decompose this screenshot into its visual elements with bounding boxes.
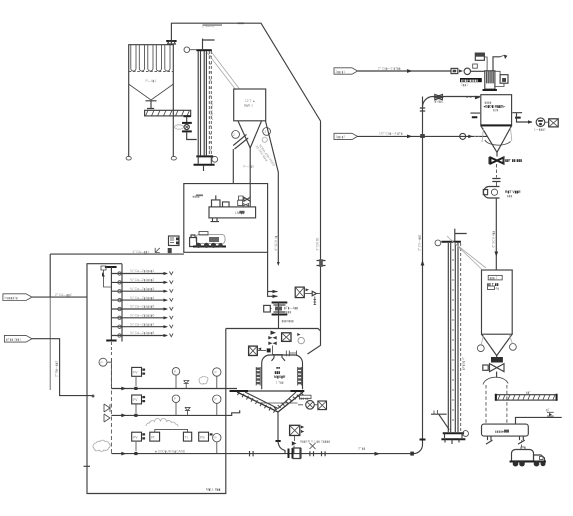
svg-text:TI: TI: [185, 436, 188, 440]
surge bin 1: [234, 89, 266, 121]
junction dot line 2: [134, 414, 137, 417]
svg-text:P: P: [215, 436, 217, 440]
branch line 2: [111, 278, 173, 284]
svg-text:¾″ Ca—2▮1▮a▮5: ¾″ Ca—2▮1▮a▮5: [130, 305, 155, 309]
svg-text:▮T▮▮ 2▮▮1: ▮T▮▮ 2▮▮1: [6, 338, 21, 342]
vent branch with valve: [317, 293, 321, 295]
svg-text:▮▮▮: ▮▮▮: [275, 371, 281, 375]
manifold header: [105, 266, 117, 268]
wire silo discharge drop: [496, 164, 498, 178]
svg-text:P—4▮1: P—4▮1: [146, 79, 157, 83]
svg-text:M▮X▮R: M▮X▮R: [274, 375, 286, 379]
mixer inlet nozzle: [272, 355, 286, 361]
instrument box vent: [295, 287, 304, 298]
arrow down on chute: [277, 262, 280, 266]
tank vent riser: [516, 417, 562, 424]
svg-text:▮▮▮: ▮▮▮: [286, 310, 292, 314]
damper on vertical line: [317, 261, 326, 266]
chute to weigh feeder right with rotated label: [266, 121, 279, 262]
dashed drop to truck: [521, 440, 523, 449]
unloader tank: [482, 424, 529, 436]
silo cone: [481, 126, 512, 153]
instrument box left of enclosure: [169, 236, 180, 246]
feeder legs: [211, 218, 220, 222]
svg-text:2″ N▮—▮▮3: 2″ N▮—▮▮3: [55, 360, 59, 377]
svg-text:▮V▮▮1: ▮V▮▮1: [435, 100, 444, 104]
flange pair on drop: [492, 179, 500, 182]
load cell strip right: [298, 368, 302, 385]
tank legs: [486, 436, 525, 444]
load cell strip left: [256, 368, 260, 385]
riser flanges upper: [420, 108, 425, 111]
hopper outlet tee: [145, 101, 156, 109]
chute elevator head to bin: [207, 53, 240, 91]
baghouse legs: [129, 84, 174, 156]
chute to left (reject): [233, 134, 248, 149]
off page flag nitrogen: [4, 335, 32, 342]
bin vent filter: [485, 71, 495, 89]
elevator 2 legs: [448, 243, 458, 432]
actuator box left of gate: [264, 305, 271, 312]
off page flag compressed air: [3, 294, 32, 301]
svg-text:▮B▮▮4▮▮▮▮▮: ▮B▮▮4▮▮▮▮▮: [461, 78, 478, 82]
aeration control box: [318, 401, 327, 410]
svg-text:3″ DN 80: 3″ DN 80: [316, 237, 320, 250]
svg-text:2▮▮ ▮2: 2▮▮ ▮2: [336, 135, 346, 139]
chute elevator head to day bin: [447, 236, 486, 269]
psv box: [475, 53, 484, 60]
svg-text:▮T: ▮T: [546, 408, 550, 412]
blower conveying line to silo: [249, 453, 414, 455]
branch line 8: [111, 331, 173, 337]
valve actuator box: [243, 204, 249, 207]
flow arrow riser up: [421, 260, 425, 266]
diverter circle left: [232, 131, 240, 139]
instrument box discharge: [290, 425, 300, 435]
fluidize air line 1: [111, 388, 237, 390]
svg-text:B▮▮ER V. L▮▮ C▮▮▮▮: B▮▮ER V. L▮▮ C▮▮▮▮: [300, 440, 330, 444]
check valve on utility line: [155, 248, 160, 253]
aeration blower circle: [306, 401, 315, 410]
flow arrow drop: [494, 252, 498, 257]
svg-text:1 T▮▮: 1 T▮▮: [276, 381, 284, 385]
manifold inlet valve: [101, 266, 111, 287]
svg-text:¾″ Ca—2▮1▮a▮8: ¾″ Ca—2▮1▮a▮8: [130, 331, 155, 335]
foot left: [126, 156, 131, 160]
bubble 2b: [213, 395, 221, 403]
svg-text:12 T ▲: 12 T ▲: [245, 99, 255, 103]
bucket elevator 1 head: [196, 49, 212, 51]
slide gate under day bin: [491, 357, 503, 363]
feeder inlet nozzles: [212, 195, 230, 207]
branch line 5: [111, 305, 173, 311]
drain valve line 2: [185, 407, 190, 415]
wire compressed air line: [32, 296, 87, 298]
revision cloud left: [93, 440, 110, 451]
filter bags: [131, 45, 136, 71]
left instrument box at mixer: [249, 346, 258, 355]
junction dot mixer inlet: [267, 348, 271, 352]
instrument box 3c: [183, 432, 191, 441]
rotary airlock below conveyor: [186, 116, 188, 122]
bubble right of inlet box: [298, 337, 304, 343]
utility line above big box: [50, 253, 184, 255]
mixer discharge stem: [277, 412, 279, 441]
svg-text:L—▮▮▮1: L—▮▮▮1: [534, 128, 546, 132]
rotary valve under day bin: [490, 364, 505, 372]
arrow: [459, 70, 463, 73]
svg-text:■ SOD▮UM B▮CARB: ■ SOD▮UM B▮CARB: [155, 449, 185, 453]
silo outlet line right: [517, 113, 533, 122]
svg-text:▮▮T ▮▮ ▮▮▮: ▮▮T ▮▮ ▮▮▮: [505, 159, 522, 163]
foot right: [171, 156, 176, 160]
boot feed chute: [431, 414, 449, 430]
svg-text:2″ CA—▮▮1: 2″ CA—▮▮1: [133, 250, 150, 254]
elevator 1 boot: [196, 155, 213, 157]
svg-text:P: P: [101, 361, 103, 365]
manifold drop to air lines: [110, 342, 112, 356]
weigh feeder hopper tank: [209, 207, 256, 218]
wire fluidize air line: [358, 135, 488, 137]
mill building boundary box: [87, 329, 226, 494]
bubble 2a: [172, 395, 180, 403]
svg-text:2″ CA—▮▮2: 2″ CA—▮▮2: [55, 293, 72, 297]
spec break x: [310, 443, 316, 449]
svg-text:2″ Ca▮—2 ▮T▮▮: 2″ Ca▮—2 ▮T▮▮: [378, 66, 401, 70]
svg-text:▮▮▮▮■: ▮▮▮▮■: [495, 430, 504, 434]
junction with fluidize line: [420, 134, 425, 138]
instrument bubble at elevator head: [184, 47, 190, 53]
elevator 2 boot: [443, 432, 464, 434]
svg-text:3″ ▮▮: 3″ ▮▮: [358, 447, 366, 451]
cone hatch left: [238, 392, 276, 413]
maintenance valve cluster on left header: [104, 404, 110, 422]
svg-text:2▮▮1: 2▮▮1: [461, 83, 468, 87]
svg-text:PI: PI: [151, 436, 154, 440]
blower conveying line inside building: [111, 453, 248, 455]
control box right: [549, 119, 559, 127]
svg-text:■■: ■■: [276, 366, 280, 370]
screw conveyor under baghouse: [145, 110, 191, 116]
rotary feeder: [483, 187, 499, 199]
bucket elevator 2 head: [441, 241, 461, 243]
bubble 1b: [213, 368, 221, 376]
instrument box 3a: [135, 442, 137, 451]
bin hopper V: [238, 121, 262, 148]
branch line 7: [111, 322, 173, 328]
flag on line 2: [121, 414, 126, 418]
svg-text:▮p▮: ▮p▮: [493, 108, 499, 112]
wire chute drop to mill feeder: [232, 149, 234, 184]
branch line 4: [111, 296, 173, 302]
svg-text:M▮LL B▮▮: M▮LL B▮▮: [206, 488, 221, 492]
check valve circle: [464, 68, 470, 74]
off page flag fluidize air: [334, 133, 358, 139]
svg-text:PS: PS: [200, 436, 204, 440]
instrument box line 1: [135, 377, 137, 386]
screw conveyor 2: [496, 395, 556, 400]
pressure regulator bubble: [99, 358, 107, 366]
fluidize air line 2: [111, 410, 239, 415]
svg-text:▮▮▮a▮▮▮: ▮▮▮a▮▮▮: [282, 319, 295, 323]
bubble 1a: [172, 368, 180, 376]
vibrator circle: [536, 118, 545, 127]
wire drop to elevator boot: [187, 132, 197, 140]
solenoid box on line: [451, 68, 458, 73]
cone hatch right: [274, 393, 304, 410]
valve on bin drop: [244, 197, 250, 201]
small instrument square above line: [473, 64, 478, 68]
bubble at boot 2: [463, 431, 469, 437]
svg-text:P: P: [174, 397, 176, 401]
off page flag dilute air: [334, 68, 358, 74]
svg-text:¾″ Ca—2▮1▮a▮3: ¾″ Ca—2▮1▮a▮3: [130, 287, 155, 291]
flange pair b: [310, 451, 325, 456]
wire mixer feed drop: [308, 330, 321, 354]
elevator 1 legs: [198, 51, 206, 155]
svg-text:▮▮▮ 2: ▮▮▮ 2: [490, 276, 498, 280]
svg-text:2: 2: [233, 133, 235, 137]
svg-text:6″ SCH 4▮▮: 6″ SCH 4▮▮: [491, 231, 495, 248]
screw feeder discharge machine (truck-like mill): [190, 232, 226, 248]
diverter circle right: [263, 127, 271, 135]
svg-text:P: P: [215, 370, 217, 374]
svg-text:¾″ Ca—2▮1▮a▮4: ¾″ Ca—2▮1▮a▮4: [130, 296, 155, 300]
branch line 1: [111, 269, 173, 275]
day bin: [482, 270, 513, 334]
svg-text:2▮▮ ▮1: 2▮▮ ▮1: [336, 70, 346, 74]
inlet isolation valve: [435, 94, 443, 99]
branch line 3: [111, 287, 173, 293]
dp unit right of filter: [500, 75, 508, 84]
feed valves above mixer: [271, 331, 277, 335]
check valve circle fluidize: [460, 133, 466, 139]
wire vent duct top header: [171, 23, 320, 330]
wire drop to day bin: [495, 198, 497, 270]
filter mount flange: [483, 89, 497, 91]
black tag label: [460, 78, 482, 82]
hopper bubbles: [477, 345, 484, 352]
flange on clean gas pipe: [166, 40, 176, 42]
revision cloud line 3: [146, 419, 178, 427]
junction dot line 1: [134, 387, 137, 390]
instrument box 3d: [199, 432, 209, 441]
wire gate to junction: [278, 315, 280, 329]
arrowheads duct join: [273, 290, 278, 298]
wire center drop from diverter: [249, 148, 251, 197]
inline blower: [289, 448, 301, 459]
wire upper air line to mixer area: [226, 328, 314, 330]
junction dot line 3: [134, 452, 137, 455]
slide gate valve assembly above mixer: [272, 303, 288, 315]
discharge funnel to conveyor: [496, 372, 498, 378]
bubble 3: [213, 434, 221, 442]
svg-text:¾″ Ca—2▮1▮a▮6: ¾″ Ca—2▮1▮a▮6: [130, 314, 155, 318]
instrument box mixer inlet: [282, 333, 291, 342]
flange pair a: [250, 451, 254, 456]
wire vertical utility riser: [49, 254, 51, 297]
junction dot nitrogen: [92, 395, 95, 398]
instrument box 3b: [150, 432, 160, 441]
mixer body: [262, 355, 303, 389]
svg-text:1½″ Ca▮—3 ▮T▮: 1½″ Ca▮—3 ▮T▮: [379, 132, 403, 136]
svg-text:3″ CV—▮▮1: 3″ CV—▮▮1: [417, 234, 421, 251]
svg-text:▮P▮3▮ 4″: ▮P▮3▮ 4″: [461, 356, 465, 370]
svg-text:B▮N 1: B▮N 1: [244, 104, 253, 108]
wire nitrogen line: [32, 339, 94, 396]
svg-text:4▮: 4▮: [496, 286, 500, 290]
bubble at elevator 2 head: [435, 240, 441, 246]
sodium bicarb silo body: [481, 95, 512, 126]
arrow into silo: [475, 96, 480, 100]
svg-text:F—1▮2: F—1▮2: [244, 165, 255, 169]
mixer cone: [237, 392, 303, 412]
cone skirt arc: [485, 140, 511, 145]
svg-text:¾″ Ca—2▮1▮a▮7: ¾″ Ca—2▮1▮a▮7: [130, 322, 155, 326]
day bin hopper: [482, 334, 513, 355]
silo discharge valve: [496, 152, 498, 156]
svg-text:27 BKT ELEV: 27 BKT ELEV: [210, 99, 214, 120]
revision cloud line 1: [199, 376, 208, 384]
svg-text:P: P: [215, 398, 217, 402]
purge air manifold cabinet: [87, 264, 122, 342]
svg-text:¾″ Ca—2▮1▮a▮1: ¾″ Ca—2▮1▮a▮1: [130, 269, 155, 273]
flag on line 3: [121, 452, 126, 456]
svg-text:▮▮▮: ▮▮▮: [507, 194, 513, 198]
svg-text:¾″ Ca—2▮1▮a▮2: ¾″ Ca—2▮1▮a▮2: [130, 278, 155, 282]
discharge valve: [294, 436, 296, 442]
mill room enclosure box: [184, 184, 268, 253]
drain valve line 1: [184, 381, 189, 389]
bubble at boot: [212, 156, 218, 162]
silo support lugs: [470, 112, 522, 114]
flanges right of nozzle: [286, 351, 296, 357]
svg-text:6″ SCH 4▮: 6″ SCH 4▮: [274, 235, 278, 250]
svg-text:2: 2: [265, 130, 267, 134]
junction dot at elbow: [410, 452, 414, 456]
conveyor end plate: [184, 115, 191, 117]
delivery truck: [510, 447, 547, 467]
baghouse dust collector body: [129, 45, 174, 84]
instrument box line 2: [135, 404, 137, 413]
flange on riser: [420, 439, 426, 441]
bubble small right: [262, 137, 267, 142]
nozzle tick on box edge: [84, 465, 91, 467]
svg-text:In▮▮▮▮1▮: In▮▮▮▮1▮: [5, 296, 18, 300]
wire dilute air line: [358, 70, 452, 72]
mill vent duct to chute: [268, 252, 278, 296]
node jog into mixer feed: [314, 329, 321, 332]
vent stack and arrow: [493, 57, 500, 71]
mixer support flange: [230, 390, 305, 392]
flow arrow conveying: [375, 452, 380, 456]
elbow into silo inlet: [423, 97, 481, 108]
elbow to riser: [414, 97, 423, 454]
small box right of feeder: [238, 200, 243, 205]
baghouse hopper: [129, 84, 174, 100]
branch line 6: [111, 314, 173, 320]
svg-text:P: P: [174, 370, 176, 374]
labels in day bin: [488, 275, 502, 280]
flag on line 1: [121, 387, 126, 391]
dark component on utility line: [168, 248, 172, 253]
